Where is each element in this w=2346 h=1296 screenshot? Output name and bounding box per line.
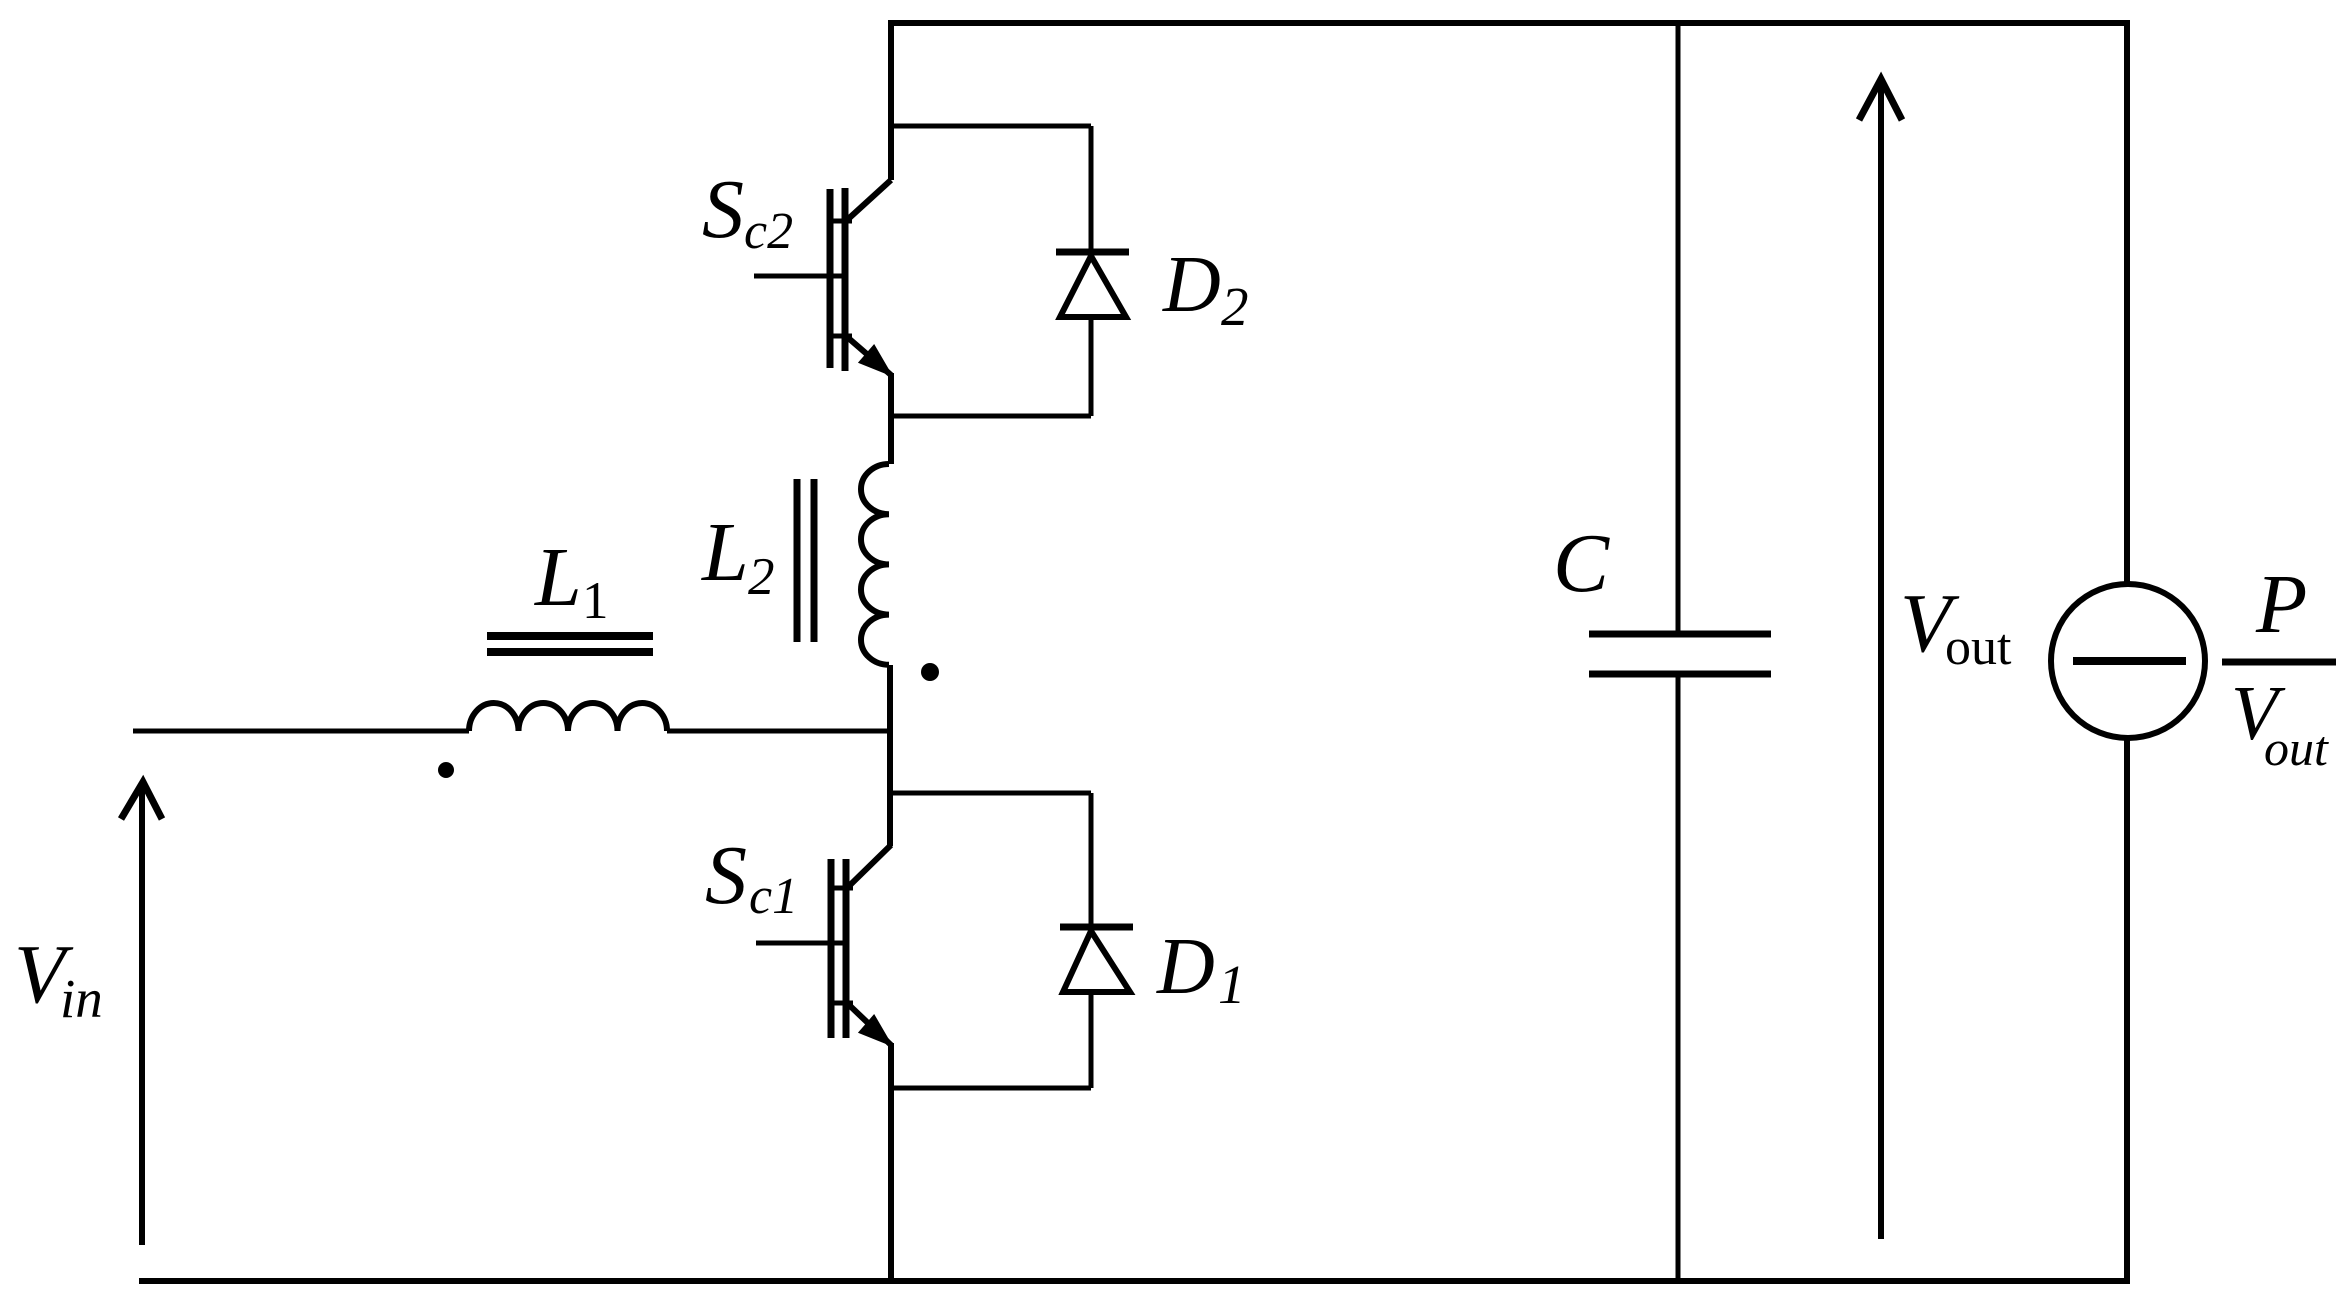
L2 coupling dot bbox=[921, 663, 939, 681]
transistor Sc1 emitter lead bbox=[847, 1003, 891, 1045]
diode D2 cathode bar bbox=[1056, 249, 1129, 256]
transistor Sc1 gate lead bbox=[756, 941, 849, 946]
transistor Sc2 collector lead bbox=[846, 180, 891, 221]
svg-text:D: D bbox=[1156, 923, 1215, 1011]
inductor L2 coil bbox=[861, 464, 889, 665]
svg-text:L: L bbox=[534, 531, 582, 624]
svg-text:S: S bbox=[702, 163, 744, 256]
diode D2 top lead bbox=[1089, 126, 1094, 252]
wire: D2 bottom branch bbox=[888, 414, 1091, 419]
wire: D2 top branch bbox=[888, 124, 1091, 129]
inductor L1 core bars bbox=[487, 636, 653, 652]
transistor Sc2 gate lead bbox=[754, 274, 848, 279]
diode D2 bottom lead bbox=[1089, 317, 1094, 416]
capacitor C bottom lead bbox=[1676, 674, 1681, 1281]
svg-text:L: L bbox=[701, 506, 749, 599]
svg-text:c1: c1 bbox=[749, 868, 798, 925]
transistor Sc2 emitter lead bbox=[846, 336, 891, 375]
Vout annotation arrow bbox=[1878, 81, 1884, 1239]
transistor Sc1 gate bar (left) bbox=[828, 859, 835, 1038]
svg-text:1: 1 bbox=[582, 572, 609, 630]
L1 coupling dot bbox=[438, 762, 454, 778]
transistor Sc1 emitter arrowhead bbox=[860, 1016, 891, 1045]
diode D1 bottom lead bbox=[1089, 992, 1094, 1088]
inductor L1 coil bbox=[469, 703, 667, 731]
transistor Sc2 collector contact stub bbox=[832, 219, 852, 224]
svg-text:1: 1 bbox=[1218, 954, 1246, 1015]
svg-text:C: C bbox=[1553, 517, 1610, 610]
transistor Sc1 collector contact stub bbox=[833, 886, 853, 891]
transistor Sc2 emitter contact stub bbox=[832, 334, 852, 339]
wire: trunk top segment (top bus to Sc2 collector) bbox=[888, 20, 894, 180]
capacitor C bottom plate bbox=[1589, 671, 1771, 678]
diode D1 cathode bar bbox=[1060, 924, 1133, 931]
wire: trunk between Sc2 emitter and L2 coil bbox=[888, 373, 894, 464]
transistor Sc1 body bar (right) bbox=[843, 859, 850, 1038]
current source circle bbox=[2051, 584, 2205, 738]
transistor Sc1 emitter contact stub bbox=[833, 1001, 853, 1006]
inductor L2 core bars bbox=[797, 479, 814, 642]
Vin annotation arrow bbox=[139, 784, 145, 1245]
wire: trunk from L2 coil bottom through input node to Sc1 collector bbox=[887, 665, 893, 846]
svg-text:2: 2 bbox=[1221, 276, 1249, 337]
svg-text:c2: c2 bbox=[744, 203, 793, 260]
wire: L1 to input node bbox=[667, 729, 891, 734]
wire: D1 bottom branch bbox=[888, 1086, 1091, 1091]
wire: top bus from node trunk to right edge, down to current source bbox=[891, 23, 2127, 585]
wire: input from left edge to L1 bbox=[133, 729, 469, 734]
transistor Sc2 body bar (right) bbox=[842, 188, 849, 371]
wire: trunk from Sc1 emitter to bottom bus bbox=[888, 1043, 894, 1281]
svg-text:out: out bbox=[2264, 720, 2329, 776]
svg-text:P: P bbox=[2255, 558, 2307, 651]
svg-text:out: out bbox=[1945, 619, 2012, 676]
wire: D1 top branch bbox=[888, 791, 1091, 796]
wire: bottom bus and right side below current source bbox=[139, 737, 2127, 1281]
capacitor C top lead bbox=[1676, 23, 1681, 634]
capacitor C top plate bbox=[1589, 631, 1771, 638]
svg-text:2: 2 bbox=[748, 548, 775, 606]
diode D2 triangle bbox=[1060, 256, 1126, 317]
svg-text:S: S bbox=[705, 829, 747, 922]
svg-text:D: D bbox=[1162, 241, 1221, 329]
current source minus bar bbox=[2073, 657, 2186, 665]
transistor Sc2 emitter arrowhead bbox=[860, 346, 891, 375]
fraction bar of P/Vout bbox=[2222, 659, 2336, 666]
diode D1 top lead bbox=[1089, 793, 1094, 927]
svg-text:in: in bbox=[60, 968, 103, 1029]
transistor Sc2 gate bar (left) bbox=[827, 189, 834, 368]
transistor Sc1 collector lead bbox=[847, 845, 891, 888]
diode D1 triangle bbox=[1063, 931, 1130, 992]
